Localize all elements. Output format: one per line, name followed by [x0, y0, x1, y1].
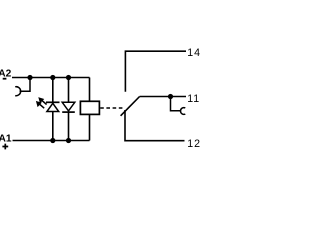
wire clamp stub A2: [20, 78, 30, 92]
svg-text:11: 11: [187, 93, 200, 105]
node 11 clamp junction: [168, 94, 173, 99]
terminal label 11: [187, 93, 200, 105]
clamp contact A2 (arc open left): [15, 87, 20, 96]
wire coil branch upper: [89, 78, 91, 102]
wire LED branch upper: [52, 78, 54, 103]
LED D1 triangle: [47, 103, 59, 111]
wire contact 11: [140, 96, 186, 98]
wire A2 horizontal top: [12, 77, 90, 79]
clamp contact 11 (arc open right): [181, 108, 186, 115]
node LED bottom: [50, 138, 55, 143]
minus sign of A2: [3, 78, 7, 80]
terminal label A2: [0, 69, 12, 80]
svg-text:A1: A1: [0, 134, 12, 145]
svg-text:12: 12: [187, 138, 200, 150]
LED light arrow 2: [36, 101, 44, 108]
wire diode branch lower: [68, 112, 70, 140]
node LED top: [50, 75, 55, 80]
wire diode branch upper: [68, 78, 70, 103]
actuator dashed link coil to contact: [100, 107, 124, 109]
diode D2 triangle: [62, 102, 75, 111]
wire A1 horizontal bottom: [13, 140, 90, 142]
contact arm (movable): [121, 97, 140, 116]
wire LED branch lower: [52, 112, 54, 141]
wire coil branch lower: [89, 114, 91, 140]
node A2 clamp junction: [27, 75, 32, 80]
terminal label A1: [0, 134, 12, 145]
wire contact 14: [125, 51, 186, 92]
plus sign of A1: [2, 144, 8, 150]
diode D2 cathode bar: [62, 111, 75, 113]
wire clamp stub 11: [171, 97, 181, 111]
LED light arrow 1: [39, 98, 47, 105]
LED D1 cathode bar: [46, 101, 60, 103]
svg-text:14: 14: [187, 47, 200, 59]
terminal label 12: [187, 138, 201, 150]
node diode bottom: [66, 138, 71, 143]
terminal label 14: [187, 47, 201, 59]
relay coil K1: [80, 101, 99, 114]
wire contact 12: [125, 110, 185, 141]
node diode top: [66, 75, 71, 80]
